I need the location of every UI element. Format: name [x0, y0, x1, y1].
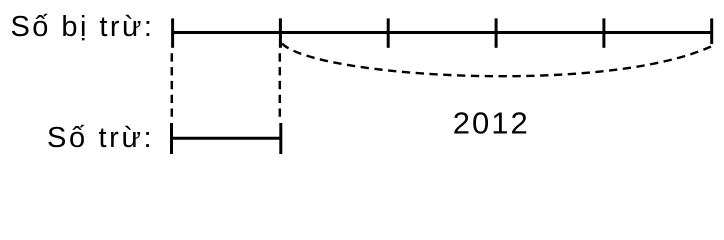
- svg-text:2012: 2012: [453, 106, 530, 141]
- svg-text:Số trừ:: Số trừ:: [47, 122, 154, 154]
- svg-text:Số bị trừ:: Số bị trừ:: [11, 11, 155, 43]
